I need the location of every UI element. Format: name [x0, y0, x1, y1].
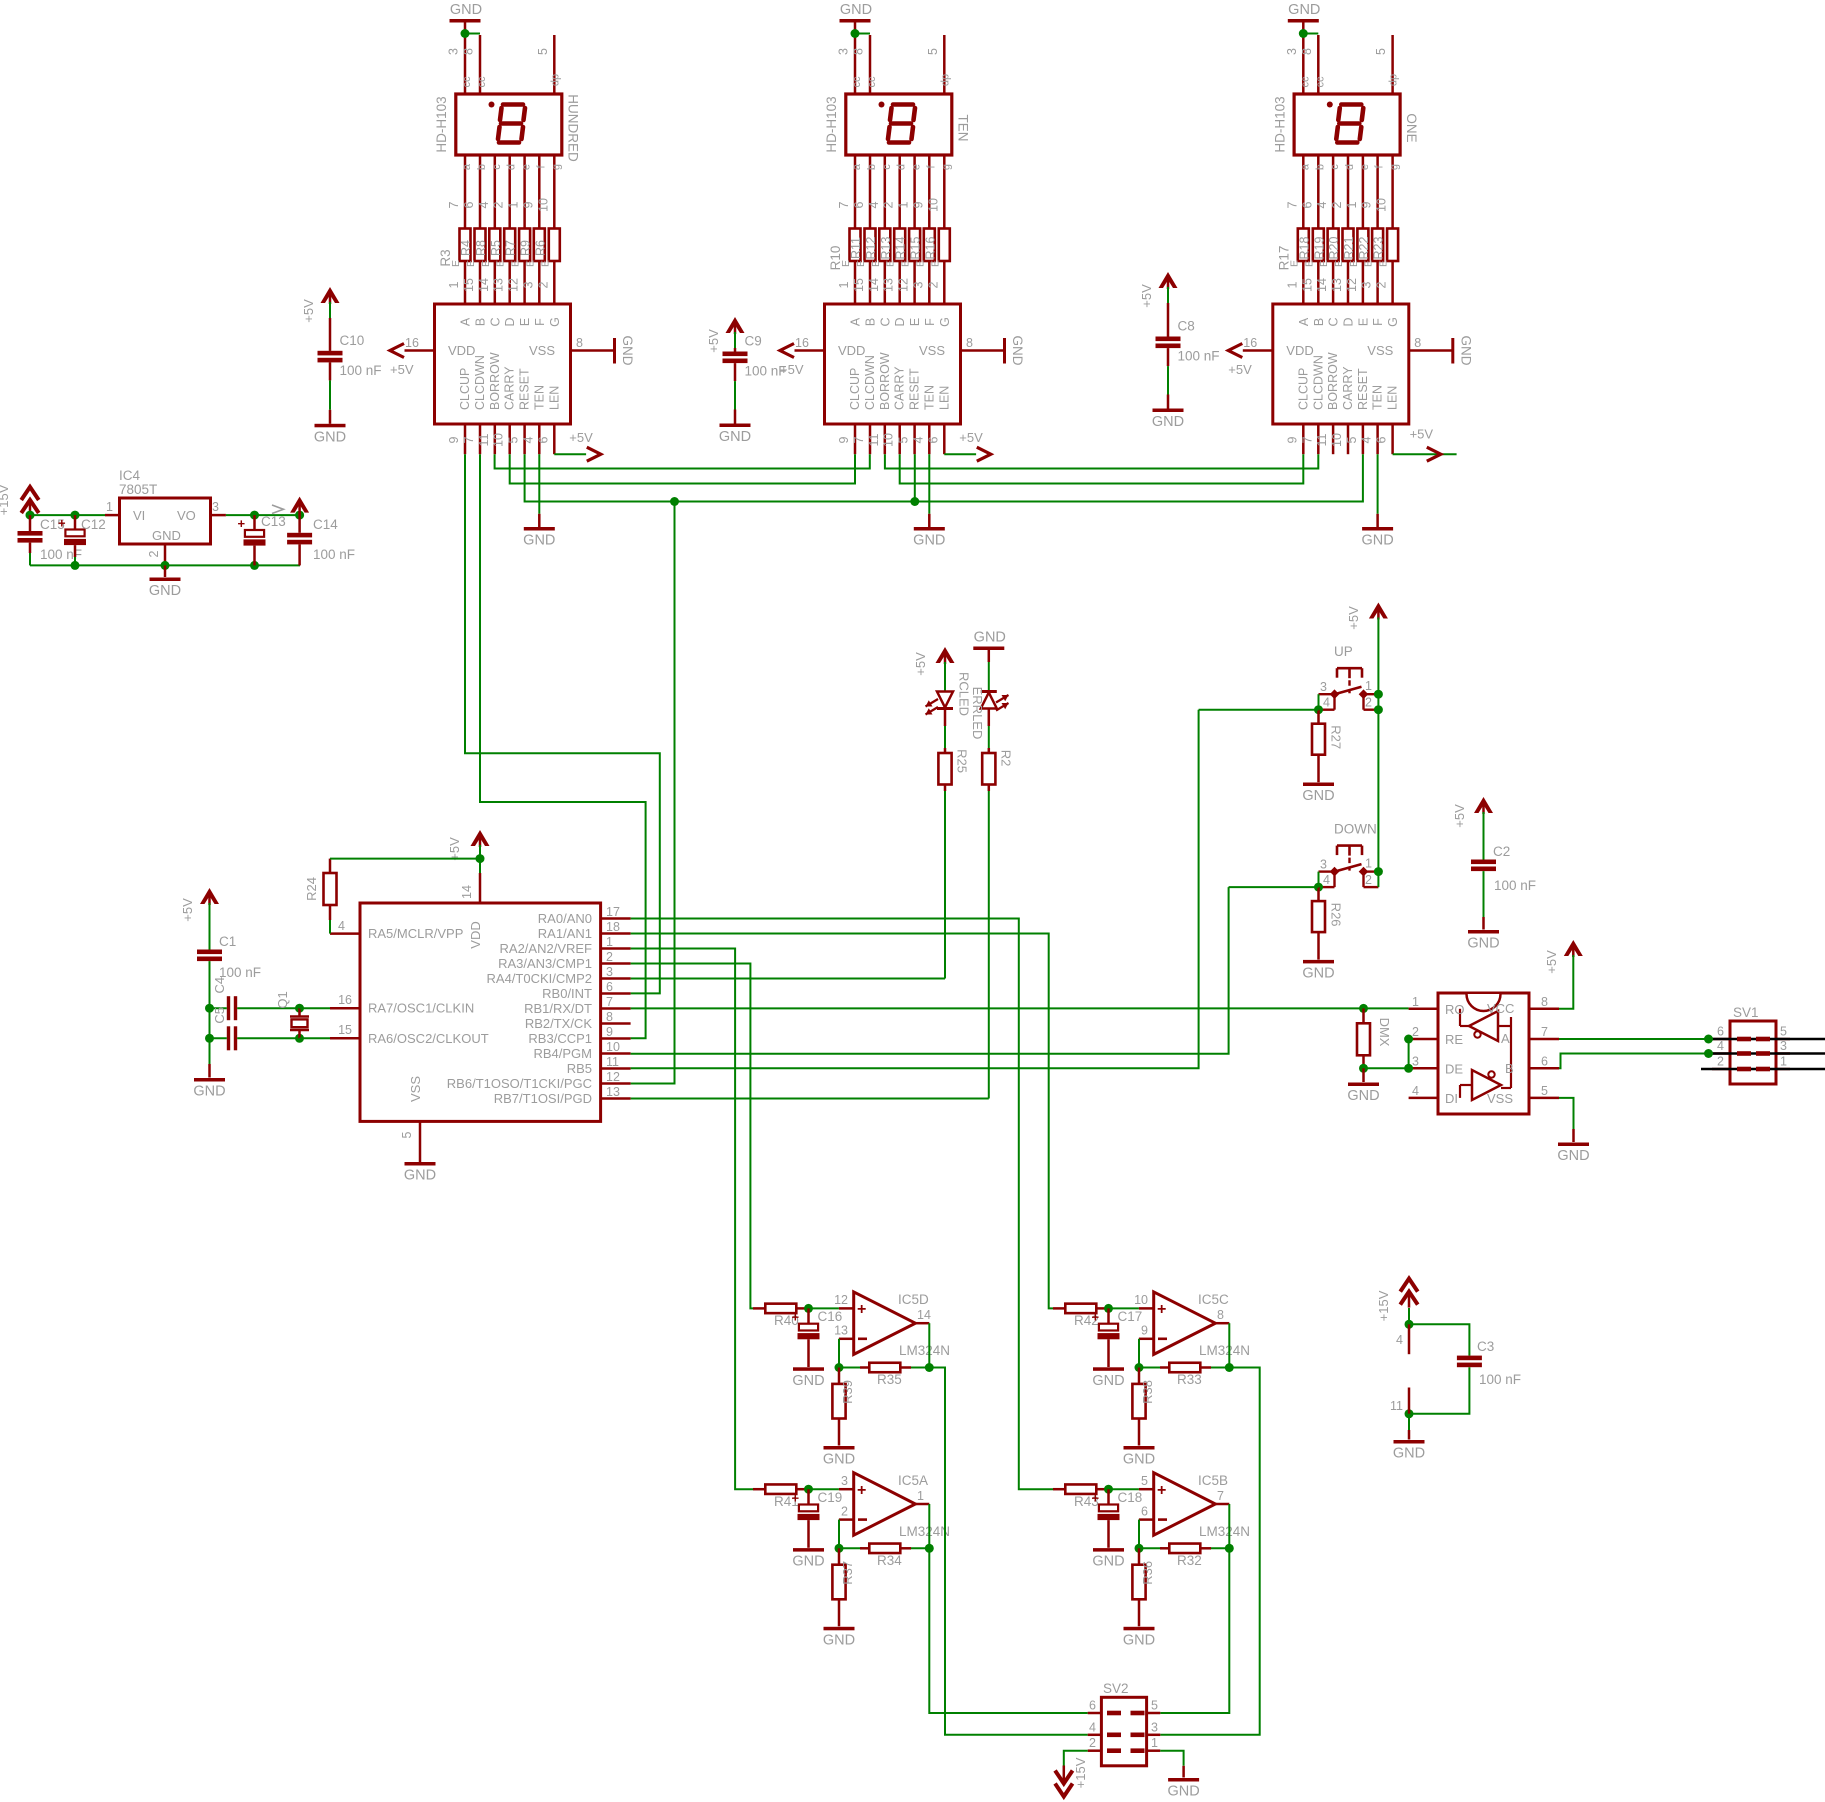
svg-text:BORROW: BORROW [488, 352, 502, 410]
svg-text:RE: RE [1445, 1032, 1463, 1047]
svg-text:10: 10 [536, 198, 550, 212]
svg-text:A: A [1501, 1031, 1510, 1046]
svg-text:100 nF: 100 nF [313, 547, 355, 562]
svg-text:+5V: +5V [1228, 362, 1252, 377]
svg-text:+5V: +5V [1410, 427, 1434, 442]
svg-text:GND: GND [1467, 936, 1499, 952]
svg-text:6: 6 [1089, 1699, 1096, 1713]
svg-text:E: E [1333, 260, 1345, 267]
svg-text:+5V: +5V [1346, 606, 1361, 630]
svg-text:7: 7 [606, 995, 613, 1009]
svg-text:5: 5 [1541, 1084, 1548, 1098]
svg-text:E: E [908, 318, 922, 326]
svg-text:7: 7 [1217, 1489, 1224, 1503]
svg-text:2: 2 [882, 201, 896, 208]
svg-text:GND: GND [1347, 1088, 1379, 1104]
svg-text:14: 14 [917, 1308, 931, 1322]
svg-text:R15: R15 [909, 236, 923, 259]
svg-text:7: 7 [837, 201, 851, 208]
svg-text:ERRLED: ERRLED [970, 687, 985, 740]
svg-text:14: 14 [460, 885, 474, 899]
svg-text:RA6/OSC2/CLKOUT: RA6/OSC2/CLKOUT [368, 1031, 489, 1046]
svg-text:GND: GND [1302, 965, 1334, 981]
svg-text:UP: UP [1334, 644, 1353, 659]
svg-text:12: 12 [1345, 278, 1359, 292]
svg-text:E: E [480, 260, 492, 267]
svg-text:GND: GND [823, 1452, 855, 1468]
svg-text:C19: C19 [818, 1490, 843, 1505]
svg-text:10: 10 [1375, 198, 1389, 212]
svg-text:R8: R8 [474, 240, 488, 256]
svg-text:2: 2 [147, 550, 161, 557]
svg-text:2: 2 [1330, 201, 1344, 208]
svg-text:3: 3 [837, 48, 851, 55]
svg-text:DI: DI [1445, 1091, 1458, 1106]
svg-text:CARRY: CARRY [503, 366, 517, 410]
svg-text:11: 11 [477, 433, 491, 446]
svg-text:B: B [474, 318, 488, 326]
svg-text:VI: VI [133, 508, 145, 523]
svg-text:C2: C2 [1493, 844, 1510, 859]
svg-text:TEN: TEN [1371, 385, 1385, 410]
svg-text:3: 3 [1320, 680, 1327, 694]
svg-text:9: 9 [606, 1025, 613, 1039]
svg-text:R34: R34 [877, 1553, 902, 1568]
svg-text:100 nF: 100 nF [1178, 349, 1220, 364]
svg-text:e: e [521, 164, 533, 170]
svg-text:BORROW: BORROW [878, 352, 892, 410]
svg-text:SV2: SV2 [1103, 1681, 1129, 1696]
svg-text:IC5C: IC5C [1198, 1292, 1229, 1307]
svg-text:GND: GND [1092, 1373, 1124, 1389]
svg-text:LM324N: LM324N [1199, 1524, 1250, 1539]
svg-text:d: d [896, 164, 908, 170]
svg-text:9: 9 [1360, 201, 1374, 208]
svg-text:R33: R33 [1177, 1372, 1202, 1387]
svg-text:10: 10 [926, 198, 940, 212]
svg-text:CLCDWN: CLCDWN [1311, 355, 1325, 410]
svg-text:6: 6 [536, 436, 550, 443]
svg-text:E: E [1356, 318, 1370, 326]
svg-text:2: 2 [1717, 1055, 1724, 1069]
svg-text:GND: GND [152, 528, 181, 543]
svg-text:RCLED: RCLED [957, 672, 972, 716]
svg-text:GND: GND [823, 1632, 855, 1648]
svg-text:CARRY: CARRY [893, 366, 907, 410]
svg-text:100 nF: 100 nF [1479, 1372, 1521, 1387]
svg-text:A: A [459, 317, 473, 326]
svg-text:15: 15 [338, 1023, 352, 1037]
svg-text:7: 7 [447, 201, 461, 208]
svg-text:RB5: RB5 [567, 1061, 592, 1076]
svg-text:LM324N: LM324N [899, 1524, 950, 1539]
svg-text:5: 5 [897, 436, 911, 443]
svg-text:4: 4 [1717, 1039, 1724, 1053]
svg-text:GND: GND [1010, 336, 1025, 366]
svg-text:3: 3 [1151, 1720, 1158, 1734]
svg-text:2: 2 [1412, 1025, 1419, 1039]
svg-text:13: 13 [1330, 278, 1344, 292]
svg-text:TEN: TEN [532, 385, 546, 410]
svg-text:R35: R35 [877, 1372, 902, 1387]
svg-text:g: g [1389, 164, 1401, 170]
svg-text:C8: C8 [1178, 319, 1195, 334]
svg-text:8: 8 [576, 336, 583, 350]
svg-text:C14: C14 [313, 517, 338, 532]
svg-text:RA7/OSC1/CLKIN: RA7/OSC1/CLKIN [368, 1001, 474, 1016]
svg-text:A: A [1297, 317, 1311, 326]
svg-text:R19: R19 [1312, 236, 1326, 259]
svg-text:C17: C17 [1118, 1309, 1143, 1324]
svg-text:g: g [550, 164, 562, 170]
svg-text:LEN: LEN [937, 386, 951, 410]
svg-text:6: 6 [852, 201, 866, 208]
svg-text:3: 3 [521, 281, 535, 288]
svg-text:d: d [506, 164, 518, 170]
svg-text:5: 5 [1374, 48, 1388, 55]
svg-text:2: 2 [1375, 281, 1389, 288]
svg-text:4: 4 [521, 436, 535, 443]
svg-text:1: 1 [1780, 1055, 1787, 1069]
svg-text:4: 4 [477, 201, 491, 208]
svg-text:1: 1 [606, 935, 613, 949]
svg-text:R18: R18 [1297, 236, 1311, 259]
svg-text:TEN: TEN [922, 385, 936, 410]
svg-text:A: A [849, 317, 863, 326]
svg-text:e: e [911, 164, 923, 170]
svg-text:5: 5 [1780, 1025, 1787, 1039]
svg-text:RESET: RESET [1356, 368, 1370, 410]
svg-text:R2: R2 [999, 750, 1014, 767]
svg-text:RESET: RESET [908, 368, 922, 410]
svg-text:E: E [870, 260, 882, 267]
svg-text:C16: C16 [818, 1309, 843, 1324]
svg-text:3: 3 [911, 281, 925, 288]
svg-text:IC5D: IC5D [898, 1292, 929, 1307]
svg-text:VSS: VSS [1367, 343, 1393, 358]
svg-text:RB2/TX/CK: RB2/TX/CK [525, 1016, 593, 1031]
svg-text:2: 2 [492, 201, 506, 208]
svg-text:VSS: VSS [529, 343, 555, 358]
svg-text:R10: R10 [828, 246, 843, 271]
svg-text:4: 4 [911, 436, 925, 443]
svg-text:10: 10 [1134, 1293, 1148, 1307]
svg-text:100 nF: 100 nF [340, 363, 382, 378]
svg-text:e: e [1359, 164, 1371, 170]
svg-text:CLCDWN: CLCDWN [863, 355, 877, 410]
svg-text:1: 1 [1365, 679, 1372, 693]
svg-text:9: 9 [447, 436, 461, 443]
svg-text:G: G [1386, 317, 1400, 327]
svg-text:SV1: SV1 [1733, 1005, 1759, 1020]
svg-text:VSS: VSS [408, 1076, 423, 1102]
svg-text:C5: C5 [212, 1007, 227, 1024]
svg-text:E: E [855, 260, 867, 267]
svg-text:VSS: VSS [919, 343, 945, 358]
svg-text:B: B [1505, 1061, 1514, 1076]
svg-text:GND: GND [1393, 1446, 1425, 1462]
svg-text:+15V: +15V [1376, 1290, 1391, 1321]
svg-text:R14: R14 [894, 236, 908, 259]
svg-text:1: 1 [1345, 201, 1359, 208]
svg-text:14: 14 [867, 278, 881, 292]
svg-text:13: 13 [882, 278, 896, 292]
svg-text:1: 1 [897, 201, 911, 208]
svg-text:1: 1 [917, 1489, 924, 1503]
svg-text:GND: GND [1302, 788, 1334, 804]
svg-text:VDD: VDD [448, 343, 475, 358]
svg-text:R27: R27 [1329, 725, 1344, 749]
svg-text:G: G [938, 317, 952, 327]
svg-text:+5V: +5V [301, 299, 316, 323]
svg-text:cc: cc [851, 76, 863, 88]
svg-text:GND: GND [450, 2, 482, 18]
svg-text:14: 14 [1315, 278, 1329, 292]
svg-text:TEN: TEN [956, 115, 971, 142]
svg-text:GND: GND [792, 1554, 824, 1570]
svg-text:+: + [792, 1310, 800, 1325]
svg-text:+: + [58, 516, 66, 531]
svg-text:R32: R32 [1177, 1553, 1202, 1568]
svg-text:1: 1 [1412, 995, 1419, 1009]
svg-text:5: 5 [536, 48, 550, 55]
svg-text:8: 8 [1414, 336, 1421, 350]
svg-text:RESET: RESET [518, 368, 532, 410]
svg-text:HD-H103: HD-H103 [1272, 96, 1287, 152]
svg-text:+5V: +5V [706, 329, 721, 353]
svg-text:RB4/PGM: RB4/PGM [533, 1046, 592, 1061]
svg-text:dp: dp [1388, 74, 1400, 86]
svg-text:2: 2 [606, 950, 613, 964]
svg-text:C13: C13 [261, 514, 286, 529]
svg-text:CARRY: CARRY [1341, 366, 1355, 410]
svg-text:R17: R17 [1276, 246, 1291, 271]
svg-text:12: 12 [507, 278, 521, 292]
svg-text:R16: R16 [923, 236, 937, 259]
svg-text:C18: C18 [1118, 1490, 1143, 1505]
svg-text:4: 4 [1089, 1720, 1096, 1734]
svg-text:GND: GND [149, 583, 181, 599]
svg-text:+: + [1092, 1491, 1100, 1506]
svg-text:C10: C10 [340, 333, 365, 348]
svg-text:Q1: Q1 [275, 991, 290, 1008]
svg-text:b: b [1314, 164, 1326, 170]
svg-text:RB7/T1OSI/PGD: RB7/T1OSI/PGD [494, 1091, 592, 1106]
svg-text:2: 2 [1089, 1736, 1096, 1750]
svg-text:C: C [1327, 317, 1341, 326]
svg-text:VO: VO [177, 508, 196, 523]
svg-text:7: 7 [1285, 201, 1299, 208]
svg-text:R24: R24 [304, 877, 319, 901]
svg-text:LEN: LEN [547, 386, 561, 410]
svg-text:GND: GND [523, 533, 555, 549]
svg-text:E: E [495, 260, 507, 267]
svg-text:4: 4 [867, 201, 881, 208]
svg-text:3: 3 [606, 965, 613, 979]
svg-text:3: 3 [1780, 1039, 1787, 1053]
svg-text:RA0/AN0: RA0/AN0 [538, 911, 592, 926]
svg-text:+5V: +5V [447, 837, 462, 861]
svg-text:R11: R11 [849, 237, 863, 259]
svg-text:LM324N: LM324N [899, 1343, 950, 1358]
svg-text:5: 5 [1345, 436, 1359, 443]
svg-text:E: E [465, 260, 477, 267]
svg-text:2: 2 [1365, 696, 1372, 710]
svg-text:GND: GND [1557, 1148, 1589, 1164]
svg-text:GND: GND [1167, 1784, 1199, 1800]
svg-text:8: 8 [1217, 1308, 1224, 1322]
svg-text:9: 9 [1141, 1324, 1148, 1338]
svg-text:cc: cc [866, 76, 878, 88]
svg-text:13: 13 [606, 1085, 620, 1099]
svg-text:+: + [1157, 1482, 1166, 1499]
svg-text:1: 1 [507, 201, 521, 208]
svg-text:C: C [488, 317, 502, 326]
svg-text:7805T: 7805T [119, 482, 157, 497]
svg-text:+5V: +5V [390, 362, 414, 377]
svg-text:1: 1 [1285, 281, 1299, 288]
svg-text:CLCDWN: CLCDWN [473, 355, 487, 410]
svg-text:RO: RO [1445, 1002, 1465, 1017]
svg-text:RB3/CCP1: RB3/CCP1 [528, 1031, 592, 1046]
svg-text:11: 11 [1390, 1399, 1403, 1413]
svg-text:6: 6 [1717, 1025, 1724, 1039]
svg-text:dp: dp [549, 74, 561, 86]
svg-text:7: 7 [1300, 436, 1314, 443]
svg-text:+: + [792, 1491, 800, 1506]
svg-text:+5V: +5V [913, 652, 928, 676]
svg-text:5: 5 [1151, 1699, 1158, 1713]
svg-text:3: 3 [841, 1474, 848, 1488]
svg-text:GND: GND [1152, 414, 1184, 430]
svg-text:8: 8 [462, 48, 476, 55]
svg-text:R23: R23 [1372, 236, 1386, 259]
svg-text:3: 3 [212, 500, 219, 514]
svg-text:4: 4 [1323, 873, 1330, 887]
svg-text:+15V: +15V [0, 484, 11, 515]
svg-text:15: 15 [1300, 278, 1314, 292]
svg-text:C4: C4 [212, 977, 227, 994]
svg-text:+5V: +5V [1139, 284, 1154, 308]
svg-text:VSS: VSS [1487, 1091, 1513, 1106]
svg-text:6: 6 [1541, 1054, 1548, 1068]
svg-text:15: 15 [852, 278, 866, 292]
svg-text:6: 6 [1141, 1504, 1148, 1518]
svg-text:E: E [914, 260, 926, 267]
svg-text:11: 11 [1315, 433, 1329, 446]
svg-text:R4: R4 [459, 240, 473, 256]
svg-text:HD-H103: HD-H103 [434, 96, 449, 152]
svg-text:E: E [1378, 260, 1390, 267]
svg-text:3: 3 [1285, 48, 1299, 55]
svg-text:d: d [1344, 164, 1356, 170]
svg-text:10: 10 [606, 1040, 620, 1054]
svg-text:VDD: VDD [838, 343, 865, 358]
svg-text:E: E [929, 260, 941, 267]
svg-text:E: E [900, 260, 912, 267]
svg-text:CLCUP: CLCUP [848, 368, 862, 410]
svg-text:BORROW: BORROW [1326, 352, 1340, 410]
svg-text:10: 10 [1330, 433, 1344, 447]
svg-text:6: 6 [926, 436, 940, 443]
svg-text:c: c [881, 164, 893, 170]
svg-text:DOWN: DOWN [1334, 822, 1377, 837]
svg-text:GND: GND [719, 429, 751, 445]
svg-text:R20: R20 [1327, 236, 1341, 259]
svg-text:+: + [857, 1482, 866, 1499]
svg-text:17: 17 [606, 905, 620, 919]
svg-text:a: a [1299, 163, 1311, 170]
svg-text:E: E [1318, 260, 1330, 267]
svg-text:IC5B: IC5B [1198, 1473, 1228, 1488]
svg-text:B: B [864, 318, 878, 326]
svg-text:15: 15 [462, 278, 476, 292]
svg-text:+: + [857, 1301, 866, 1318]
svg-text:GND: GND [314, 429, 346, 445]
svg-text:9: 9 [1285, 436, 1299, 443]
svg-text:R38: R38 [1140, 1380, 1155, 1404]
svg-text:5: 5 [926, 48, 940, 55]
svg-text:+5V: +5V [180, 898, 195, 922]
svg-text:12: 12 [834, 1293, 848, 1307]
svg-text:12: 12 [606, 1070, 620, 1084]
svg-text:E: E [1303, 260, 1315, 267]
svg-text:HD-H103: HD-H103 [824, 96, 839, 152]
svg-text:100 nF: 100 nF [745, 364, 787, 379]
svg-text:cc: cc [461, 76, 473, 88]
svg-text:16: 16 [405, 336, 419, 350]
svg-text:R39: R39 [840, 1380, 855, 1404]
svg-text:DE: DE [1445, 1061, 1463, 1076]
svg-text:8: 8 [606, 1010, 613, 1024]
svg-text:13: 13 [834, 1324, 848, 1338]
svg-text:GND: GND [1458, 336, 1473, 366]
svg-text:R9: R9 [519, 240, 533, 256]
svg-text:6: 6 [1375, 436, 1389, 443]
svg-text:LEN: LEN [1386, 386, 1400, 410]
svg-text:16: 16 [1243, 336, 1257, 350]
svg-text:18: 18 [606, 920, 620, 934]
svg-text:VDD: VDD [1286, 343, 1313, 358]
svg-text:4: 4 [1360, 436, 1374, 443]
svg-text:6: 6 [462, 201, 476, 208]
svg-text:G: G [548, 317, 562, 327]
svg-text:b: b [866, 164, 878, 170]
svg-text:IC4: IC4 [119, 468, 141, 483]
svg-text:4: 4 [1323, 696, 1330, 710]
svg-text:cc: cc [476, 76, 488, 88]
svg-text:GND: GND [1092, 1554, 1124, 1570]
svg-text:E: E [1363, 260, 1375, 267]
svg-text:1: 1 [1151, 1736, 1158, 1750]
svg-text:R6: R6 [533, 240, 547, 256]
svg-text:3: 3 [447, 48, 461, 55]
svg-text:R3: R3 [438, 249, 453, 266]
svg-text:4: 4 [1315, 201, 1329, 208]
svg-text:11: 11 [606, 1055, 619, 1069]
svg-text:DMX: DMX [1377, 1018, 1392, 1047]
svg-text:+: + [1157, 1301, 1166, 1318]
svg-text:RB1/RX/DT: RB1/RX/DT [524, 1001, 592, 1016]
svg-text:9: 9 [837, 436, 851, 443]
svg-text:R25: R25 [955, 749, 970, 773]
svg-text:C: C [878, 317, 892, 326]
svg-text:8: 8 [966, 336, 973, 350]
svg-text:8: 8 [1541, 995, 1548, 1009]
svg-text:GND: GND [1361, 533, 1393, 549]
svg-text:F: F [1371, 318, 1385, 326]
svg-text:+5V: +5V [569, 430, 593, 445]
